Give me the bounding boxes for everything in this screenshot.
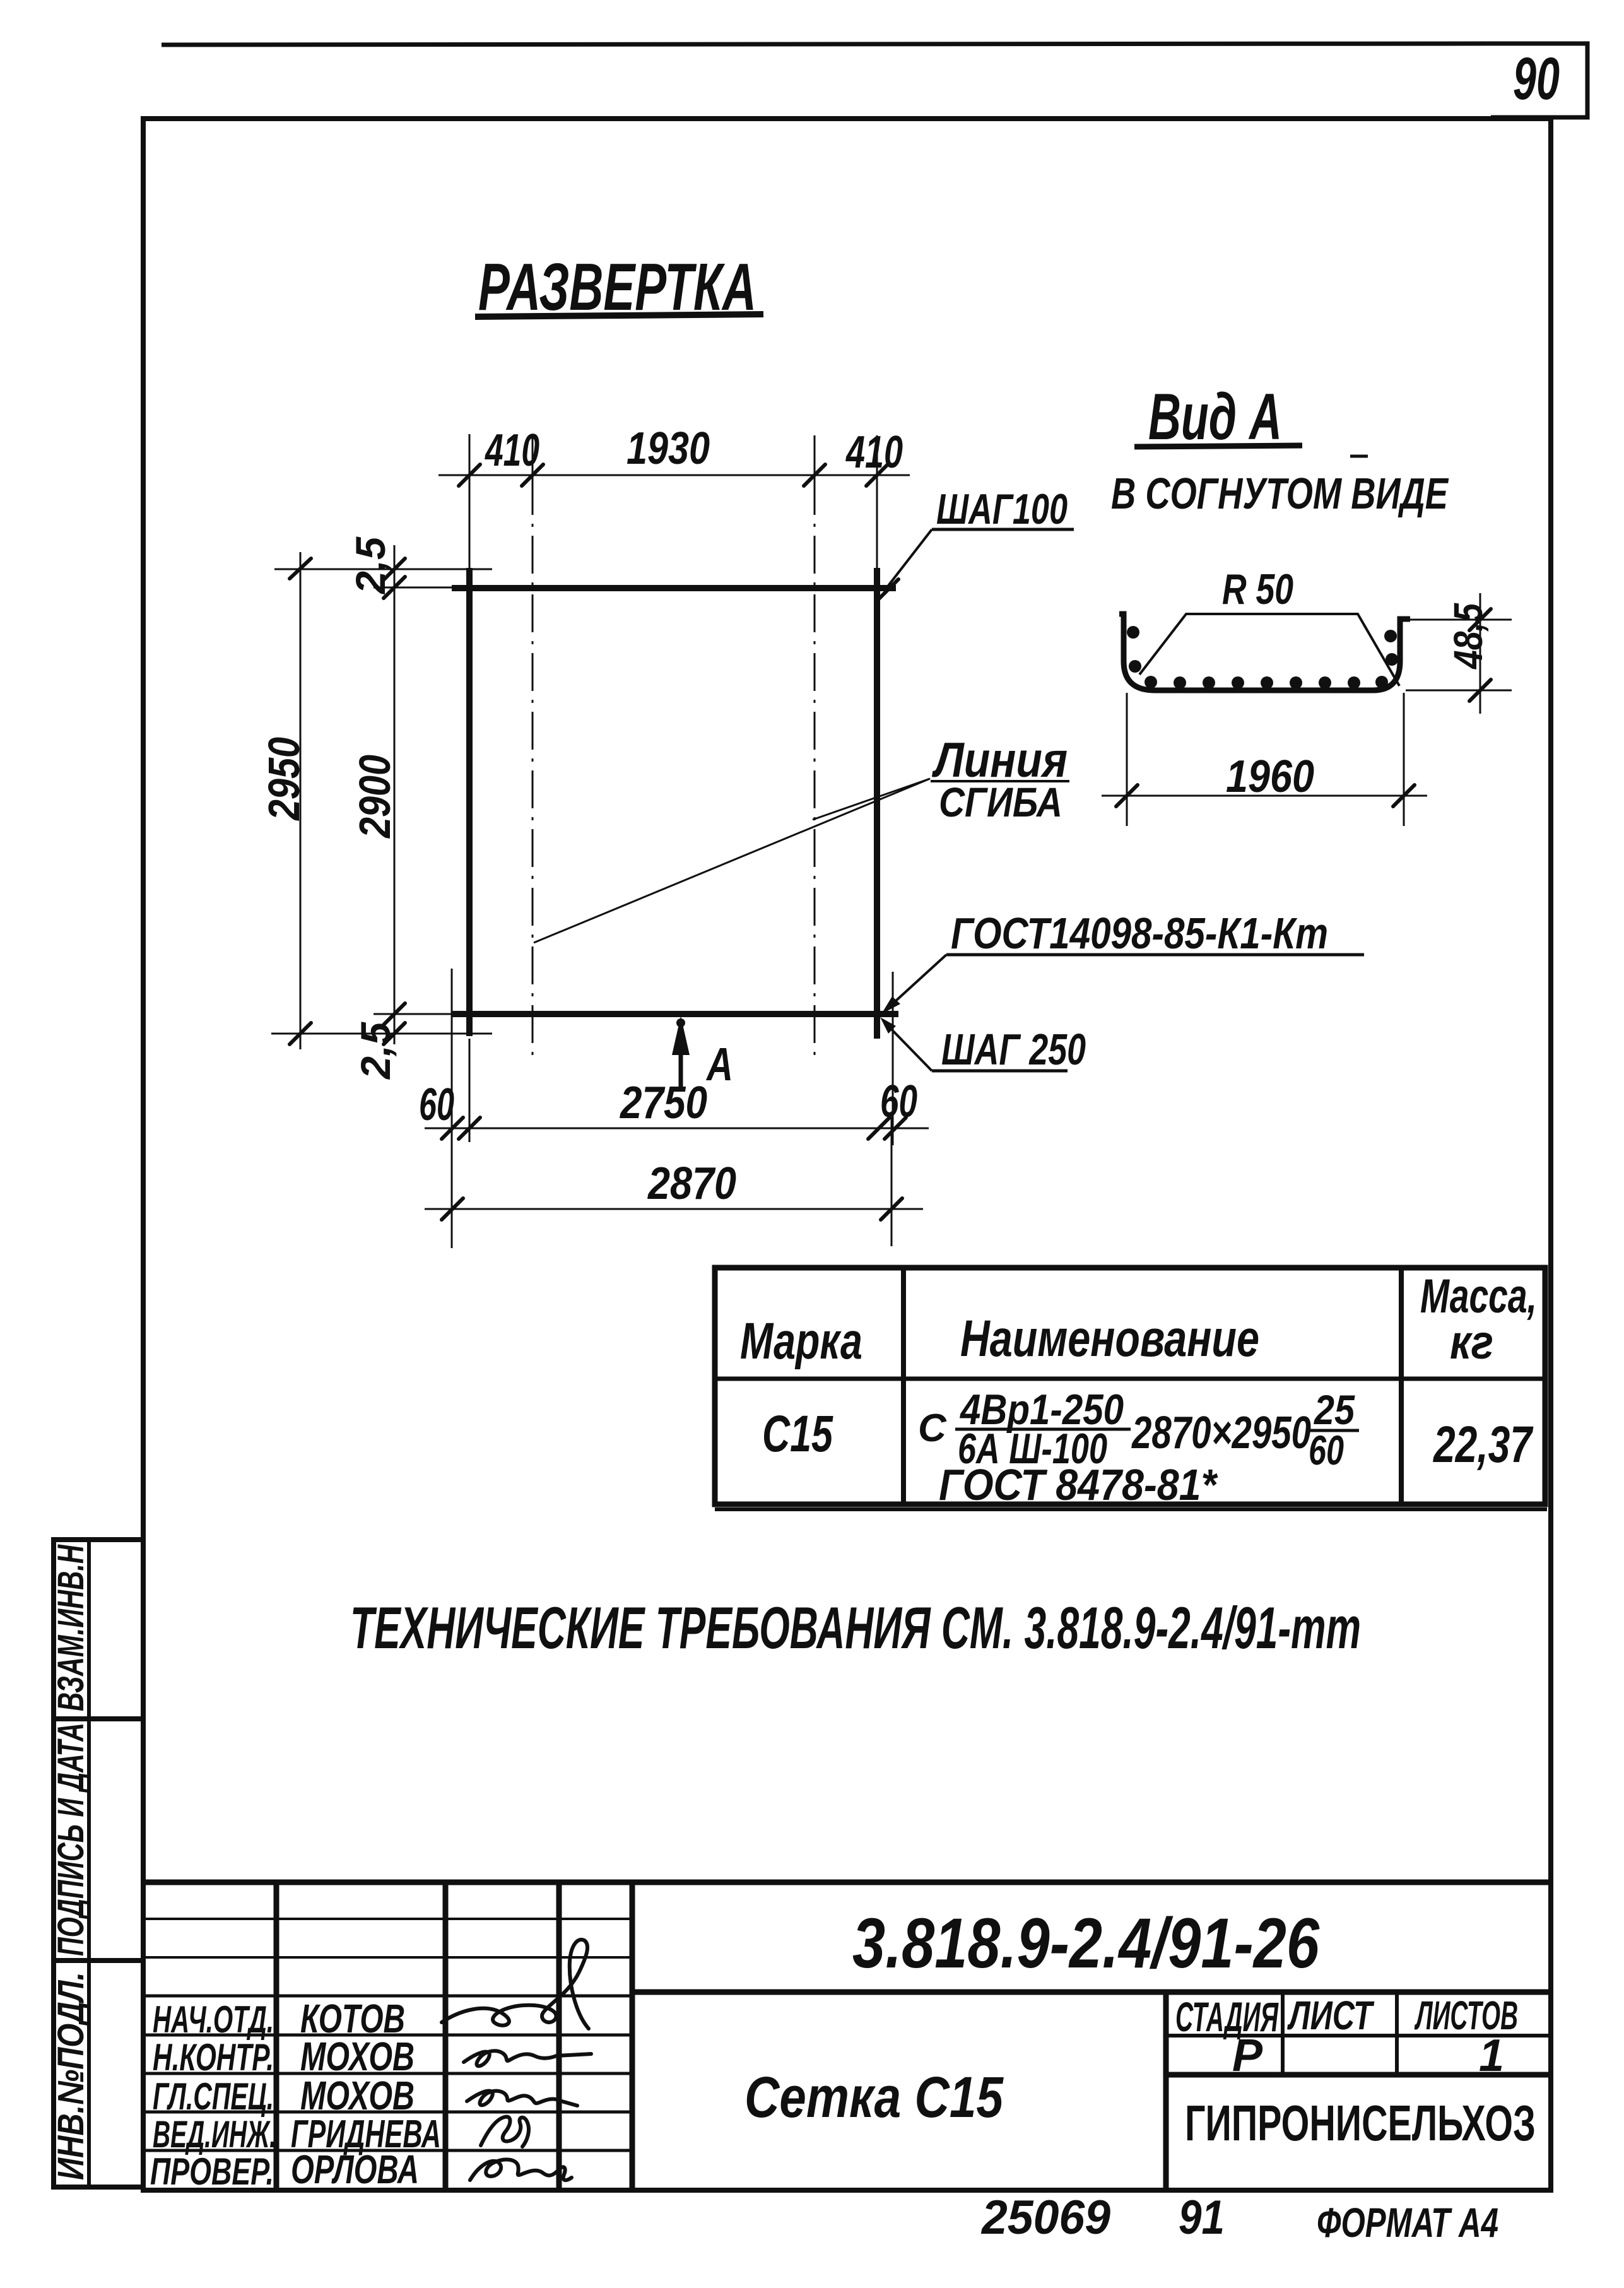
svg-text:ШАГ100: ШАГ100 [936, 485, 1068, 533]
svg-text:2870: 2870 [647, 1159, 736, 1209]
svg-text:ГИПРОНИСЕЛЬХОЗ: ГИПРОНИСЕЛЬХОЗ [1185, 2095, 1536, 2151]
svg-text:2,5: 2,5 [352, 1022, 399, 1080]
svg-text:410: 410 [485, 425, 539, 476]
svg-text:ГОСТ14098-85-К1-Кт: ГОСТ14098-85-К1-Кт [951, 909, 1328, 958]
svg-text:Наименование: Наименование [960, 1310, 1259, 1367]
svg-text:2,5: 2,5 [347, 536, 394, 595]
svg-text:60: 60 [880, 1076, 917, 1127]
svg-text:3.818.9-2.4/91-26: 3.818.9-2.4/91-26 [852, 1904, 1320, 1983]
svg-text:ВЗАМ.ИНВ.Н: ВЗАМ.ИНВ.Н [50, 1544, 91, 1711]
svg-text:ЛИСТ: ЛИСТ [1287, 1993, 1375, 2038]
svg-text:48,5: 48,5 [1445, 603, 1491, 670]
svg-text:СГИБА: СГИБА [939, 779, 1062, 825]
svg-text:Марка: Марка [740, 1312, 862, 1370]
svg-text:R 50: R 50 [1222, 565, 1293, 613]
svg-text:С: С [918, 1406, 947, 1450]
svg-text:ГОСТ 8478-81*: ГОСТ 8478-81* [939, 1460, 1218, 1509]
svg-text:ПОДПИСЬ И ДАТА: ПОДПИСЬ И ДАТА [50, 1723, 91, 1956]
svg-text:СТАДИЯ: СТАДИЯ [1175, 1993, 1279, 2040]
svg-text:кг: кг [1450, 1316, 1493, 1369]
svg-text:2900: 2900 [350, 755, 399, 839]
svg-text:Вид А: Вид А [1148, 380, 1282, 454]
svg-text:22,37: 22,37 [1432, 1416, 1533, 1473]
svg-text:1960: 1960 [1226, 752, 1314, 802]
svg-text:ГЛ.СПЕЦ.: ГЛ.СПЕЦ. [153, 2075, 274, 2118]
svg-text:410: 410 [845, 427, 903, 478]
svg-text:2870×2950: 2870×2950 [1131, 1408, 1311, 1458]
svg-text:А: А [705, 1038, 733, 1090]
svg-text:60: 60 [419, 1080, 454, 1130]
svg-text:90: 90 [1513, 45, 1560, 112]
svg-text:25: 25 [1313, 1386, 1355, 1433]
svg-text:91: 91 [1179, 2191, 1225, 2244]
svg-text:Сетка С15: Сетка С15 [744, 2065, 1004, 2130]
svg-text:ПРОВЕР.: ПРОВЕР. [150, 2150, 274, 2193]
svg-text:ФОРМАТ А4: ФОРМАТ А4 [1317, 2199, 1498, 2246]
svg-text:МОХОВ: МОХОВ [300, 2073, 415, 2118]
svg-text:1: 1 [1479, 2031, 1504, 2081]
svg-text:ВЕД.ИНЖ.: ВЕД.ИНЖ. [153, 2113, 276, 2155]
svg-text:Н.КОНТР.: Н.КОНТР. [153, 2036, 274, 2079]
svg-text:1930: 1930 [627, 423, 710, 474]
svg-text:ОРЛОВА: ОРЛОВА [291, 2147, 419, 2192]
svg-text:ИНВ.№ПОДЛ.: ИНВ.№ПОДЛ. [50, 1972, 91, 2180]
svg-text:ШАГ 250: ШАГ 250 [941, 1025, 1086, 1074]
svg-text:2750: 2750 [619, 1078, 707, 1128]
svg-text:2950: 2950 [259, 737, 309, 822]
svg-text:60: 60 [1309, 1427, 1344, 1473]
svg-text:С15: С15 [762, 1405, 833, 1463]
svg-text:ТЕХНИЧЕСКИЕ ТРЕБОВАНИЯ СМ. 3.8: ТЕХНИЧЕСКИЕ ТРЕБОВАНИЯ СМ. 3.818.9-2.4/9… [350, 1595, 1361, 1661]
svg-text:В СОГНУТОМ ВИДЕ: В СОГНУТОМ ВИДЕ [1111, 469, 1449, 518]
svg-text:НАЧ.ОТД.: НАЧ.ОТД. [153, 1998, 274, 2041]
svg-text:25069: 25069 [980, 2191, 1110, 2244]
svg-text:Р: Р [1232, 2031, 1263, 2081]
